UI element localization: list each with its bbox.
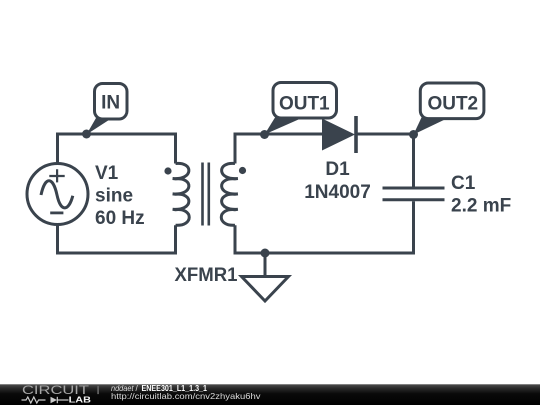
svg-text:OUT1: OUT1 [279,93,330,114]
svg-text:1N4007: 1N4007 [304,182,371,203]
svg-text:60 Hz: 60 Hz [95,208,145,229]
svg-text:http://circuitlab.com/cnv2zhya: http://circuitlab.com/cnv2zhyaku6hv [111,391,261,401]
svg-text:OUT2: OUT2 [427,94,478,115]
svg-text:IN: IN [101,93,120,114]
svg-text:D1: D1 [325,159,350,180]
svg-text:sine: sine [95,186,133,207]
svg-text:2.2 mF: 2.2 mF [451,196,511,217]
svg-text:XFMR1: XFMR1 [175,265,238,286]
svg-text:C1: C1 [451,173,476,194]
svg-text:V1: V1 [95,163,119,184]
svg-text:LAB: LAB [69,395,92,404]
